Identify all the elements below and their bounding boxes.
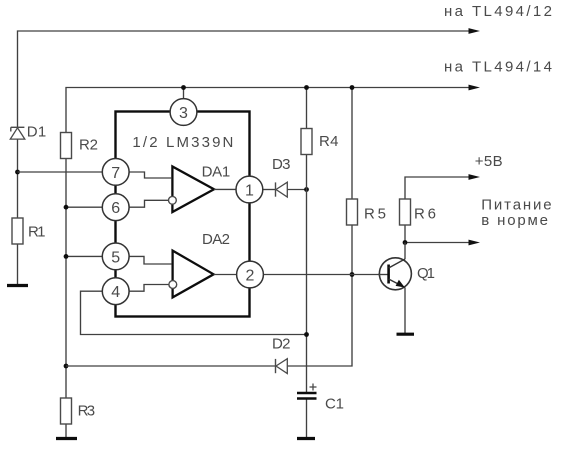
node junction R6/collector/arrow — [403, 240, 408, 245]
wire pin 4 input down and right to R4/C1 rail — [81, 291, 306, 334]
wire R3 bottom to ground — [65, 424, 67, 438]
ground under R1 — [7, 284, 28, 287]
svg-text:6: 6 — [111, 200, 120, 217]
arrowhead TL494/12 — [469, 28, 481, 34]
wire from R2 top up and right to TL494/14 — [66, 88, 469, 133]
op-amp DA1 — [172, 167, 214, 213]
wire R6 bottom to collector node — [404, 225, 406, 243]
pin 4 — [102, 278, 129, 305]
wire C1 bottom to ground — [306, 399, 308, 438]
resistor R1 — [12, 218, 23, 244]
svg-text:R2: R2 — [79, 137, 98, 154]
inverting bubble DA1 — [169, 196, 177, 204]
diode D3 — [276, 182, 288, 197]
node junction R5/TL494-14 — [350, 85, 355, 90]
pin 3 — [170, 99, 197, 126]
capacitor C1 — [297, 393, 317, 399]
wire DA1 output — [214, 188, 236, 190]
resistor R3 — [61, 398, 72, 424]
wire pin4 jog to DA2 minus input — [129, 285, 169, 292]
wire Q1 collector — [404, 243, 406, 260]
svg-text:2: 2 — [246, 268, 255, 285]
svg-text:C1: C1 — [325, 396, 344, 413]
wire R4 top — [306, 88, 308, 129]
inverting bubble DA2 — [169, 281, 177, 289]
wire pin3 stub to TL494/14 line — [183, 88, 185, 100]
wire R4 bottom rail down to C1 — [306, 155, 308, 393]
wire R1 bottom to ground — [17, 244, 19, 285]
resistor R6 — [400, 199, 411, 225]
svg-text:+5В: +5В — [475, 153, 503, 170]
pin 2 — [237, 261, 264, 288]
svg-text:DA2: DA2 — [202, 231, 230, 248]
pin 7 — [102, 159, 129, 186]
svg-text:D3: D3 — [272, 156, 291, 173]
svg-text:на TL494/14: на TL494/14 — [444, 59, 552, 76]
svg-text:D2: D2 — [272, 336, 291, 353]
node junction D3/R4 — [304, 187, 309, 192]
wire pin1 output to D3 cathode — [263, 189, 275, 191]
ground under R3 — [56, 437, 77, 440]
ground under C1 — [297, 437, 315, 440]
svg-text:3: 3 — [179, 105, 188, 122]
svg-text:Q1: Q1 — [417, 265, 435, 282]
svg-text:D1: D1 — [27, 124, 47, 141]
pin 1 — [236, 176, 263, 203]
wire R2 bottom down to D2 rail — [65, 159, 67, 367]
svg-text:R4: R4 — [319, 133, 339, 150]
ground under Q1 emitter — [397, 333, 415, 336]
svg-text:на TL494/12: на TL494/12 — [444, 3, 552, 20]
wire D3 anode to R4 rail — [288, 189, 307, 191]
svg-text:4: 4 — [111, 284, 120, 301]
wire pin2 output to Q1 base — [264, 274, 389, 276]
node junction R4/TL494-14 — [304, 85, 309, 90]
transistor Q1 — [378, 258, 411, 290]
wire collector node to power-good arrow — [405, 242, 469, 244]
svg-text:7: 7 — [111, 165, 120, 182]
resistor R2 — [61, 133, 72, 159]
node junction R2/pin6 — [64, 205, 69, 210]
pin 5 — [102, 243, 129, 270]
resistor R4 — [301, 129, 312, 155]
wire pin7 jog to DA1 plus input — [129, 172, 171, 178]
wire DA2 output — [214, 274, 237, 276]
svg-text:DA1: DA1 — [202, 164, 231, 181]
wire R5 top — [351, 88, 353, 200]
arrowhead +5V — [469, 174, 481, 180]
node junction pin4 rail/R4 rail — [304, 332, 309, 337]
wire R3 top — [65, 366, 67, 398]
node junction pin3/TL494-14 — [181, 85, 186, 90]
wire pin 5 input — [66, 255, 102, 257]
svg-text:5: 5 — [111, 249, 120, 266]
node junction D1/R1/pin7 — [15, 170, 20, 175]
wire pin 7 input — [18, 171, 103, 173]
resistor R5 — [347, 199, 358, 225]
wire pin 6 input — [66, 206, 102, 208]
node junction R2/R3/D2 rail — [64, 364, 69, 369]
svg-text:Питание: Питание — [481, 196, 551, 213]
wire D1 cathode down to R1 — [17, 139, 19, 218]
wire D2 rail left segment — [66, 365, 275, 367]
wire Q1 emitter to ground — [404, 288, 406, 334]
pin 6 — [102, 194, 129, 221]
node junction R5/D2/base — [350, 272, 355, 277]
svg-text:R3: R3 — [78, 402, 96, 419]
op-amp box U1 LM339N — [116, 112, 250, 317]
arrowhead TL494/14 — [469, 85, 481, 91]
node junction R2/pin5 — [64, 254, 69, 259]
svg-text:1: 1 — [245, 183, 254, 200]
svg-text:R1: R1 — [28, 224, 46, 241]
plus mark C1 — [310, 384, 317, 391]
wire D2 anode to R5 bottom corner — [288, 225, 353, 366]
wire from D1 anode up and right to TL494/12 — [18, 31, 470, 127]
wire R6 top to +5V arrow — [405, 177, 469, 199]
wire pin5 jog to DA2 plus input — [129, 256, 171, 264]
wire pin6 jog to DA1 minus input — [129, 200, 168, 207]
zener diode D1 — [10, 127, 24, 139]
op-amp DA2 — [173, 251, 214, 298]
diode D2 — [276, 359, 288, 374]
arrowhead power good — [469, 240, 481, 246]
